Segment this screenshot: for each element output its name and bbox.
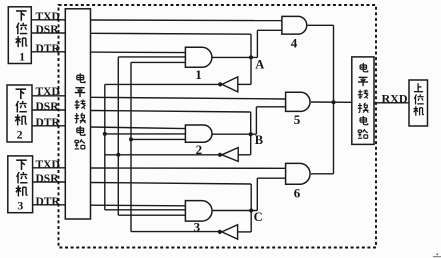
AND gate 4	[282, 16, 307, 34]
wire inverter3 output horizontal	[131, 231, 220, 233]
wire /A to gate2 input 2	[105, 133, 186, 135]
block: lower machine 2 (下位机2)	[7, 85, 32, 142]
AND gate 3	[185, 201, 212, 222]
block: right level conversion circuit (电平转换电路)	[352, 57, 374, 144]
wire /C bus vertical (inverter3 output up the page)	[130, 62, 132, 231]
wire TXD1 left stub	[31, 19, 65, 21]
wire DSR1 left stub	[31, 32, 65, 34]
wire inverter3 input from node C vertical	[238, 231, 252, 233]
wire node A up	[256, 30, 258, 57]
wire node C up	[256, 178, 258, 210]
dashed boundary box of gating network	[59, 5, 377, 248]
wire RXD line to upper machine	[374, 102, 409, 104]
speck (scan noise)	[436, 253, 438, 255]
svg-text:DTR: DTR	[36, 43, 61, 55]
wire /C to gate1 input 3	[131, 61, 185, 63]
wire DSR2 right	[91, 111, 251, 113]
svg-text:1: 1	[195, 67, 202, 82]
svg-text:TXD: TXD	[36, 11, 60, 23]
wire DTR2 left stub	[32, 125, 65, 127]
wire DSR3 left stub	[33, 181, 66, 183]
wire gate3 output to node C	[212, 210, 257, 212]
inverter 1 bubble dot	[218, 82, 222, 86]
wire TXD3 to gate6 input A	[91, 167, 286, 169]
AND gate 6	[286, 163, 310, 184]
wire DSR2 left stub	[32, 109, 65, 111]
junction dot /A-gate2	[103, 132, 107, 136]
junction dot /C-gate2	[129, 137, 133, 141]
wire gate1 output to node A	[212, 56, 258, 58]
svg-text:DSR: DSR	[36, 24, 60, 36]
wire node B to gate5 input B	[256, 106, 285, 108]
AND gate 5	[286, 92, 310, 111]
svg-text:B: B	[255, 133, 263, 147]
inverter 1 (triangle, on node A)	[222, 77, 238, 92]
node B junction dot	[249, 132, 253, 136]
wire DTR1 to gate1 input 1	[91, 51, 186, 54]
AND gate 2	[185, 125, 212, 142]
wire /B to gate3 input 3	[118, 214, 185, 216]
svg-text:3: 3	[18, 201, 24, 213]
junction dot gate outputs	[332, 100, 336, 104]
svg-text:5: 5	[294, 112, 301, 127]
wire DSR1 right	[91, 32, 252, 35]
block: left level conversion circuit (电平转换电路)	[65, 9, 90, 219]
wire DTR1 left stub	[31, 51, 65, 53]
wire /B to gate1 input 2	[118, 56, 185, 58]
svg-text:DSR: DSR	[36, 101, 60, 113]
inverter 3 bubble dot	[218, 230, 222, 234]
wire inverter1 input from node A vertical	[238, 83, 251, 85]
wire TXD2 to gate5 input A	[91, 97, 286, 99]
svg-text:2: 2	[17, 130, 23, 142]
block: lower machine 1 (下位机1)	[8, 7, 31, 64]
svg-text:1: 1	[19, 52, 25, 64]
wire DSR1 vertical down to node A and inverter1	[250, 34, 252, 84]
node C junction dot	[249, 209, 253, 213]
wire node A to gate4 input B	[257, 29, 282, 31]
AND gate 1	[185, 47, 212, 67]
wire inverter2 output horizontal	[105, 154, 220, 156]
svg-text:DTR: DTR	[36, 196, 61, 208]
wire gate6 output right	[311, 173, 334, 175]
wire gate6 output up to RXD line	[333, 102, 335, 174]
inverter 2 (triangle, on node B)	[222, 148, 238, 162]
wire DSR3 right	[91, 183, 252, 185]
wire TXD3 left stub	[33, 167, 66, 169]
svg-text:C: C	[254, 210, 263, 224]
svg-text:DTR: DTR	[36, 117, 61, 129]
wire gate5 output to right level box	[311, 101, 352, 103]
svg-text:3: 3	[194, 219, 201, 234]
wire DTR2 to gate2 input 1	[91, 127, 186, 129]
wire /B bus vertical (inverter2 output up/down)	[117, 57, 119, 215]
wire gate4 output right	[308, 24, 334, 26]
wire TXD1 to gate4 input A	[91, 19, 282, 22]
wire /C to gate2 input 3	[131, 138, 185, 140]
inverter 3 (triangle, on node C)	[222, 225, 238, 239]
wire DTR3 left stub	[33, 204, 66, 206]
svg-text:2: 2	[196, 142, 203, 157]
block: upper machine (上位机)	[409, 80, 428, 126]
inverter 2 bubble dot	[218, 153, 222, 157]
svg-text:6: 6	[294, 186, 301, 201]
wire /A bus vertical (inverter1 output down the page)	[104, 84, 106, 209]
wire /A to gate3 input 2	[105, 209, 186, 211]
wire inverter1 output horizontal	[105, 83, 220, 85]
svg-text:DSR: DSR	[36, 173, 60, 185]
wire node B up	[255, 107, 257, 134]
svg-text:A: A	[255, 57, 264, 71]
svg-text:4: 4	[291, 35, 298, 50]
wire DSR3 vertical down to node C and inverter3	[250, 184, 252, 232]
wire DTR3 to gate3 input 1	[91, 204, 186, 207]
junction dot /B-inverter2	[116, 153, 120, 157]
svg-text:TXD: TXD	[36, 159, 60, 171]
wire gate2 output to node B	[212, 133, 256, 135]
wire DSR2 vertical down to node B and inverter2	[250, 112, 252, 155]
block: lower machine 3 (下位机3)	[8, 156, 33, 213]
node A junction dot	[249, 55, 253, 59]
wire gate4 output down to RXD line	[333, 25, 335, 102]
wire TXD2 left stub	[32, 95, 65, 97]
wire inverter2 input from node B vertical	[238, 154, 251, 156]
wire node C to gate6 input B	[257, 177, 285, 179]
